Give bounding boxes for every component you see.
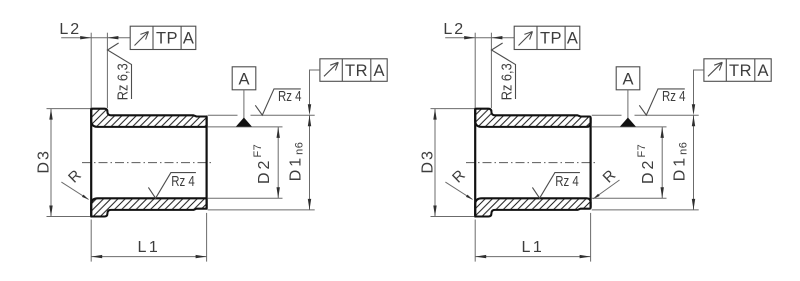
body right end face edge line [589, 118, 591, 207]
svg-text:L1: L1 [522, 239, 545, 256]
dimension L2 [445, 37, 514, 39]
svg-text:Rz 6,3: Rz 6,3 [116, 63, 132, 100]
body bottom extension line (D1) [592, 209, 699, 211]
surface symbol Rz 4 (bore, lower) [148, 173, 196, 199]
svg-text:TR: TR [345, 62, 368, 80]
feature control frame TP A [130, 26, 196, 49]
flange face edge line [90, 109, 92, 217]
datum A filled triangle [236, 118, 252, 127]
bushing bottom section band (hatched) [91, 198, 206, 216]
datum A filled triangle [620, 118, 636, 127]
bore bottom extension line [208, 197, 283, 199]
svg-text:A: A [757, 62, 768, 80]
svg-text:TP: TP [540, 29, 562, 47]
svg-text:L1: L1 [138, 239, 161, 256]
svg-text:A: A [622, 71, 633, 89]
surface symbol Rz 4 (upper, on D1 extension) [639, 89, 685, 115]
svg-text:A: A [373, 62, 384, 80]
bore top extension line [208, 126, 283, 128]
dimension D2 F7 [277, 127, 279, 198]
svg-text:D2F7: D2F7 [252, 144, 273, 184]
feature control frame TR A with leader [704, 59, 771, 82]
feature control frame TR A with leader [320, 59, 387, 82]
svg-text:A: A [238, 71, 249, 89]
surface symbol Rz 4 (upper, on D1 extension) [255, 89, 300, 115]
radius label R with leader (flange) [445, 182, 472, 199]
bushing top section band (hatched) [91, 109, 206, 127]
svg-text:R: R [600, 167, 620, 187]
surface symbol Rz 6,3 (rotated, on flange face) [492, 43, 516, 99]
svg-text:A: A [183, 29, 194, 47]
svg-text:D1n6: D1n6 [671, 142, 689, 182]
svg-text:L2: L2 [59, 21, 81, 38]
body right end face edge line [206, 117, 208, 209]
svg-text:TP: TP [156, 29, 178, 47]
dimension D3 [47, 108, 91, 110]
dimension L2 [61, 37, 130, 39]
surface symbol Rz 4 (bore, lower) [532, 173, 580, 199]
svg-text:L2: L2 [443, 21, 465, 38]
svg-text:Rz 6,3: Rz 6,3 [500, 63, 516, 100]
svg-text:D1n6: D1n6 [287, 142, 305, 182]
body bottom extension line (D1) [208, 209, 315, 211]
dimension D3 [431, 108, 475, 110]
radius label R with leader (bore exit, right end) [593, 180, 619, 199]
svg-text:D3: D3 [419, 149, 436, 173]
svg-text:D2F7: D2F7 [636, 144, 657, 184]
svg-text:Rz 4: Rz 4 [555, 174, 579, 190]
svg-text:D3: D3 [35, 149, 52, 173]
surface symbol Rz 6,3 (rotated, on flange face) [108, 43, 132, 99]
body top extension line (D1) [592, 114, 622, 116]
dimension D1 n6 [309, 115, 311, 210]
dimension L1 [474, 220, 476, 262]
svg-text:R: R [65, 167, 85, 187]
bushing bottom section band (hatched, rounded bore exit) [475, 198, 590, 216]
bore bottom extension line [592, 197, 667, 199]
dimension D1 n6 [693, 115, 695, 210]
svg-text:R: R [449, 167, 469, 187]
datum A box and leader [232, 67, 256, 90]
feature control frame TP A [514, 26, 580, 49]
svg-text:TR: TR [729, 62, 752, 80]
svg-text:Rz 4: Rz 4 [278, 89, 302, 105]
svg-text:Rz 4: Rz 4 [662, 89, 686, 105]
dimension D2 F7 [661, 127, 663, 198]
centerline [82, 162, 212, 164]
centerline [466, 162, 596, 164]
datum A box and leader [616, 67, 640, 90]
svg-text:Rz 4: Rz 4 [171, 174, 195, 190]
dimension L1 [90, 220, 92, 262]
flange face edge line [474, 109, 476, 217]
radius label R with leader [61, 182, 88, 199]
svg-text:A: A [567, 29, 578, 47]
bore top extension line [592, 126, 667, 128]
bushing top section band (hatched, rounded bore exit) [475, 109, 590, 127]
body top extension line (D1) [208, 114, 238, 116]
